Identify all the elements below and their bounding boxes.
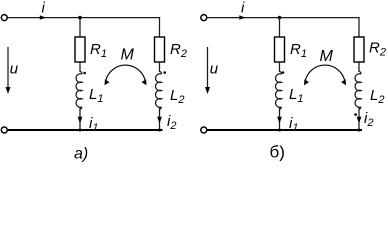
svg-text:i: i [241, 0, 245, 17]
svg-text:i2: i2 [364, 110, 373, 129]
svg-text:i1: i1 [89, 115, 98, 134]
svg-text:L2: L2 [170, 87, 184, 106]
svg-text:M: M [121, 47, 135, 64]
svg-text:R1: R1 [90, 41, 107, 60]
svg-text:L1: L1 [289, 86, 303, 105]
svg-text:i1: i1 [289, 115, 298, 134]
svg-text:б): б) [270, 143, 285, 162]
svg-text:L1: L1 [89, 86, 103, 105]
svg-text:i2: i2 [167, 113, 176, 132]
svg-text:а): а) [74, 146, 88, 163]
svg-text:i: i [42, 0, 46, 17]
svg-text:R1: R1 [290, 41, 307, 60]
svg-text:u: u [10, 61, 19, 78]
svg-text:R2: R2 [170, 41, 187, 60]
svg-text:u: u [210, 61, 219, 78]
svg-text:R2: R2 [369, 40, 386, 59]
svg-text:M: M [320, 48, 334, 65]
svg-text:L2: L2 [370, 87, 384, 106]
